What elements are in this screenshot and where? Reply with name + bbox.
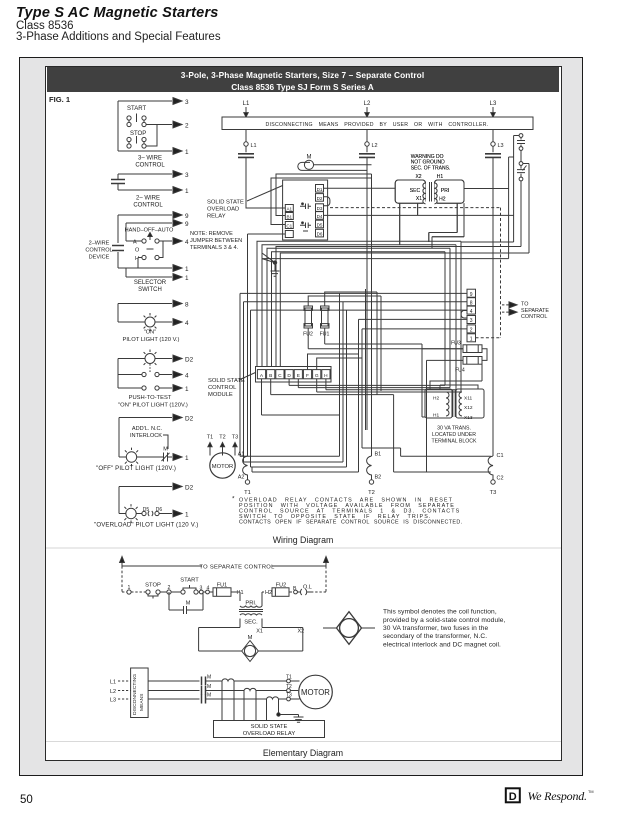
coil loop wires	[199, 628, 242, 652]
svg-text:HAND–OFF–AUTO: HAND–OFF–AUTO	[125, 228, 174, 234]
svg-text:provided by a solid-state cont: provided by a solid-state control module…	[383, 617, 506, 624]
motor M2	[299, 675, 333, 709]
30VA transformer core	[453, 390, 455, 417]
control terminal strip box 2	[467, 325, 476, 333]
fuse FU3	[463, 345, 482, 353]
svg-text:X11: X11	[464, 396, 473, 402]
wires fuses FU3 FU4	[422, 349, 487, 361]
svg-text:B1: B1	[286, 215, 292, 220]
svg-text:"ON" PILOT LIGHT (120V.): "ON" PILOT LIGHT (120V.)	[118, 403, 188, 409]
control terminal strip box 4	[467, 306, 476, 314]
wire pair branch to relay C1	[271, 178, 372, 225]
wires module F G up	[308, 354, 363, 370]
dark header bar	[47, 67, 559, 93]
svg-text:H2: H2	[439, 197, 446, 203]
svg-text:INTERLOCK: INTERLOCK	[130, 433, 162, 439]
wire relay bottom left	[248, 234, 286, 456]
coil connection wires	[240, 456, 359, 472]
wire A-H right link	[159, 241, 163, 258]
module cell F	[303, 370, 311, 379]
svg-text:PRI: PRI	[441, 188, 449, 194]
svg-text:STOP: STOP	[130, 131, 146, 137]
svg-text:TO: TO	[521, 302, 528, 308]
wire L2 aux pair	[367, 174, 372, 456]
svg-text:D2: D2	[185, 357, 194, 364]
arrow terminal 1	[173, 187, 182, 194]
phase wires	[148, 681, 199, 699]
svg-text:DEVICE: DEVICE	[89, 255, 110, 261]
svg-text:O: O	[135, 248, 140, 254]
svg-text:T3: T3	[490, 490, 497, 496]
to separate control arrows	[502, 304, 509, 306]
svg-text:4: 4	[185, 373, 189, 380]
overload sensor L3	[267, 697, 287, 699]
svg-text:OVERLOAD RELAY: OVERLOAD RELAY	[243, 731, 296, 737]
module cell B	[267, 370, 275, 379]
svg-text:1: 1	[185, 149, 189, 156]
svg-text:C: C	[278, 373, 282, 379]
wire to terminal 9 lower	[126, 223, 172, 241]
wires module cells down	[262, 379, 340, 415]
wire L2 drop	[366, 157, 368, 430]
svg-text:This symbol denotes the coil f: This symbol denotes the coil function,	[383, 608, 497, 615]
svg-text:D2: D2	[185, 416, 194, 423]
svg-text:D6: D6	[317, 232, 323, 237]
wire stair 4	[272, 252, 446, 367]
wires to control terminal strip	[240, 293, 467, 467]
pushbutton STOP contacts	[127, 137, 131, 141]
junction dot and ground tap	[279, 699, 299, 717]
svg-text:CONTROL: CONTROL	[135, 163, 165, 169]
wires fuse bottoms	[308, 328, 325, 349]
svg-text:FU3: FU3	[451, 341, 461, 347]
svg-text:E: E	[297, 373, 300, 379]
svg-text:T1: T1	[207, 435, 213, 441]
svg-text:SELECTOR: SELECTOR	[134, 280, 167, 286]
svg-text:SEC.: SEC.	[244, 620, 258, 626]
separator rule	[46, 547, 561, 549]
svg-text:"OVERLOAD" PILOT LIGHT (120 V.: "OVERLOAD" PILOT LIGHT (120 V.)	[94, 522, 198, 529]
relay terminal D3	[316, 204, 324, 212]
svg-text:8: 8	[185, 302, 189, 309]
wire PRI out	[464, 188, 509, 190]
wire fu loop down	[422, 344, 425, 417]
svg-text:OVERLOAD: OVERLOAD	[207, 207, 239, 213]
svg-text:PUSH-TO-TEST: PUSH-TO-TEST	[129, 395, 172, 401]
wire to terminal D2	[119, 417, 172, 419]
svg-text:FU4: FU4	[455, 368, 465, 374]
contact device symbol	[117, 174, 119, 190]
pilot light overload	[126, 508, 136, 518]
svg-text:RELAY: RELAY	[207, 214, 226, 220]
svg-text:2: 2	[470, 328, 473, 334]
svg-text:D: D	[509, 791, 517, 803]
svg-text:SOLID STATE: SOLID STATE	[207, 200, 244, 206]
svg-text:*: *	[232, 496, 235, 503]
wire risers right	[445, 241, 461, 392]
wire L3 drop	[492, 157, 494, 456]
wires fuse tops	[308, 292, 381, 306]
svg-text:C2: C2	[497, 476, 504, 482]
svg-text:2–WIRE: 2–WIRE	[89, 241, 110, 247]
control terminal strip box 8	[467, 298, 476, 306]
NC interlock lower	[519, 162, 523, 166]
ground	[271, 271, 280, 276]
svg-text:M: M	[207, 684, 211, 690]
svg-text:DISCONNECTING: DISCONNECTING	[132, 674, 138, 715]
svg-text:SOLID STATE: SOLID STATE	[208, 378, 245, 384]
svg-text:F: F	[306, 373, 309, 379]
outer gray frame	[19, 57, 583, 776]
wire to terminal 3	[118, 173, 172, 175]
overload contact	[136, 513, 142, 515]
svg-text:MOTOR: MOTOR	[301, 688, 330, 697]
wire stair 5	[276, 247, 521, 367]
primary right lead	[262, 592, 264, 606]
svg-text:B: B	[269, 373, 272, 379]
wire to terminal 2	[146, 124, 172, 126]
arrow terminal 3	[173, 171, 182, 178]
left rail	[119, 487, 126, 514]
svg-text:1: 1	[470, 337, 473, 343]
arrow terminal 1	[173, 148, 182, 155]
dashed wire from terminal 1	[476, 337, 501, 339]
wire H row to bottom	[138, 258, 142, 269]
wire D3 dashed out	[330, 207, 501, 209]
svg-text:CONTROL: CONTROL	[133, 203, 163, 209]
square d logo	[506, 788, 520, 802]
relay internal contact upper	[300, 204, 311, 210]
svg-text:LOCATED UNDER: LOCATED UNDER	[432, 432, 476, 438]
secondary leads	[240, 619, 262, 628]
svg-text:electrical interlock and DC ma: electrical interlock and DC magnet coil.	[383, 641, 501, 648]
pushbutton START contacts	[127, 116, 131, 120]
svg-text:B1: B1	[375, 452, 382, 458]
svg-text:4: 4	[185, 320, 189, 327]
svg-text:G: G	[315, 373, 319, 379]
lower contact row	[118, 387, 142, 389]
module cell H	[322, 370, 330, 379]
fuse FU1	[322, 308, 329, 326]
interlock riser right	[528, 164, 530, 254]
svg-text:MODULE: MODULE	[208, 392, 233, 398]
module cell D	[285, 370, 293, 379]
relay internal contact lower	[300, 223, 311, 232]
L2 fuse terminal	[366, 130, 368, 142]
svg-text:JUMPER BETWEEN: JUMPER BETWEEN	[190, 238, 242, 244]
arrow terminal 2	[173, 121, 182, 128]
svg-text:H1: H1	[437, 174, 444, 180]
svg-text:2: 2	[185, 123, 189, 130]
legend diamond symbol	[337, 612, 362, 645]
left rail	[117, 215, 119, 268]
svg-text:30 VA transformer, two fuses i: 30 VA transformer, two fuses in the	[383, 625, 488, 632]
svg-text:A: A	[133, 240, 137, 246]
wire to terminal 9 upper	[118, 214, 172, 216]
svg-text:START: START	[127, 106, 146, 112]
svg-text:M: M	[207, 693, 211, 699]
wire to terminal 3	[118, 100, 172, 102]
relay terminal D6	[316, 229, 324, 237]
dashed rail down	[500, 208, 502, 338]
wire jog start-to-stop	[146, 125, 157, 147]
relay terminal C1	[285, 222, 293, 229]
svg-text:TO SEPARATE CONTROL: TO SEPARATE CONTROL	[199, 564, 275, 570]
svg-text:We Respond.: We Respond.	[528, 789, 587, 803]
page title	[16, 5, 219, 21]
wire stair 7	[262, 258, 509, 260]
svg-text:SEC: SEC	[410, 188, 421, 194]
wire stair 3	[267, 248, 450, 366]
svg-text:3: 3	[470, 318, 473, 324]
svg-text:MEANS: MEANS	[139, 693, 145, 711]
wire light to contact to terminal 1	[137, 456, 172, 458]
sensor drops to relay box	[222, 681, 267, 721]
svg-text:1: 1	[185, 188, 189, 195]
svg-text:M: M	[186, 601, 191, 607]
bundle horizontals	[271, 385, 461, 394]
svg-text:9: 9	[185, 221, 189, 228]
pilot light	[145, 354, 155, 364]
svg-text:L2: L2	[364, 101, 371, 107]
svg-text:L1: L1	[243, 101, 250, 107]
svg-text:3: 3	[185, 99, 189, 106]
transformer loop wires	[400, 203, 418, 245]
svg-text:D: D	[287, 373, 291, 379]
svg-text:SEPARATE: SEPARATE	[521, 308, 549, 314]
svg-text:START: START	[180, 578, 199, 584]
svg-text:NOTE: REMOVE: NOTE: REMOVE	[190, 231, 233, 237]
30VA transformer left winding	[425, 389, 452, 418]
module cell C	[276, 370, 284, 379]
svg-text:CONTROL: CONTROL	[208, 385, 237, 391]
svg-text:T2: T2	[368, 490, 375, 496]
test contact row	[118, 374, 142, 376]
L3 fuse terminal	[492, 130, 494, 142]
fuse FU4	[463, 357, 482, 365]
dashed link light to contact	[149, 364, 151, 372]
disconnecting means box	[131, 668, 149, 718]
svg-text:3– WIRE: 3– WIRE	[138, 156, 162, 162]
svg-text:PILOT LIGHT (120 V.): PILOT LIGHT (120 V.)	[123, 337, 180, 343]
wire stair 1	[257, 241, 461, 366]
arrow terminal 3	[173, 98, 182, 105]
svg-text:L2: L2	[372, 143, 378, 149]
svg-text:L3: L3	[490, 101, 497, 107]
svg-text:SOLID STATE: SOLID STATE	[251, 724, 288, 730]
svg-text:MOTOR: MOTOR	[212, 464, 233, 470]
svg-text:9: 9	[185, 213, 189, 220]
svg-text:DISCONNECTING MEANS PROVIDED: DISCONNECTING MEANS PROVIDED BY USER OR …	[265, 122, 488, 128]
wire D1 out	[324, 187, 396, 189]
pilot light ON	[145, 317, 155, 327]
relay terminal D0	[285, 231, 293, 238]
relay terminal A1	[285, 205, 293, 212]
wire M top to interlock	[314, 164, 372, 166]
wire to terminal 1	[118, 189, 172, 191]
battery bars 2-wire device	[112, 246, 124, 251]
wire L1 drop to relay	[246, 157, 285, 208]
svg-text:M: M	[163, 447, 168, 453]
wire left rail	[117, 101, 119, 151]
white drawing panel	[45, 66, 562, 761]
wires into motor	[290, 681, 299, 699]
motor M1	[210, 453, 235, 478]
NC interlock upper	[519, 134, 523, 138]
relay terminal D1	[316, 185, 324, 193]
svg-text:SWITCH: SWITCH	[138, 287, 162, 293]
wire stair 2	[262, 245, 456, 367]
wire riser pair	[377, 292, 381, 395]
ground junction	[273, 261, 276, 264]
svg-text:ADD'L. N.C.: ADD'L. N.C.	[132, 426, 163, 432]
svg-text:T1: T1	[244, 490, 251, 496]
svg-text:X13: X13	[464, 415, 473, 421]
wire primary top	[239, 592, 241, 601]
module cell E	[294, 370, 302, 379]
overload sensor L1	[222, 679, 287, 681]
transformer connection wires	[430, 364, 482, 389]
jumper tab 4-3	[461, 311, 467, 319]
left rail	[118, 304, 145, 323]
left rail	[117, 359, 119, 389]
relay terminal D5	[316, 220, 324, 228]
svg-text:D1: D1	[317, 187, 323, 192]
wire stair 6	[280, 253, 529, 367]
svg-text:1: 1	[185, 512, 189, 519]
svg-text:A2: A2	[238, 475, 245, 481]
svg-text:L3: L3	[498, 143, 504, 149]
svg-text:"OFF" PILOT LIGHT (120V.): "OFF" PILOT LIGHT (120V.)	[96, 465, 176, 472]
svg-text:D2: D2	[185, 485, 194, 492]
svg-text:X1: X1	[256, 629, 263, 635]
svg-text:3: 3	[185, 172, 189, 179]
relay terminal D4	[316, 212, 324, 220]
wire to terminal 4	[155, 321, 172, 323]
svg-text:T3: T3	[232, 435, 238, 441]
svg-text:C1: C1	[286, 224, 292, 229]
wire to terminal 1	[118, 267, 172, 269]
svg-text:H1: H1	[433, 413, 439, 419]
svg-text:L1: L1	[251, 143, 257, 149]
control terminal strip box 1	[467, 334, 476, 342]
fuse FU2	[305, 308, 312, 326]
wire to terminal 1	[118, 150, 172, 152]
svg-text:X12: X12	[464, 405, 473, 411]
svg-text:"ON": "ON"	[144, 330, 156, 336]
wire M bottom	[310, 169, 367, 171]
svg-text:H2: H2	[433, 396, 439, 402]
svg-text:4: 4	[470, 309, 473, 315]
svg-text:8: 8	[470, 300, 473, 306]
selector actuator arrow	[149, 235, 151, 240]
svg-text:D2: D2	[317, 196, 323, 201]
svg-text:H2: H2	[265, 590, 272, 596]
separator rule	[46, 741, 561, 743]
svg-text:STOP: STOP	[145, 583, 161, 589]
svg-text:D4: D4	[317, 214, 323, 219]
L1 fuse terminal	[245, 130, 247, 142]
wire L2 branch to relay B1	[276, 174, 367, 216]
wire fu1 bottom across	[325, 344, 422, 349]
svg-text:L1: L1	[110, 680, 116, 686]
module cell G	[313, 370, 321, 379]
svg-text:1: 1	[185, 386, 189, 393]
jumper tab D2-D3	[324, 197, 330, 206]
svg-text:CONTACTS OPEN IF SEPARATE CONT: CONTACTS OPEN IF SEPARATE CONTROL SOURCE…	[239, 520, 462, 526]
dashed rails down	[121, 566, 123, 592]
pilot light OFF	[126, 452, 136, 462]
svg-text:X1: X1	[416, 196, 422, 202]
svg-text:X2: X2	[415, 174, 421, 180]
svg-text:L2: L2	[110, 689, 116, 695]
svg-text:D3: D3	[317, 206, 323, 211]
arrow terminal 4	[173, 238, 182, 245]
svg-text:M: M	[207, 675, 211, 681]
riser right outer	[509, 157, 514, 259]
wire fu2 bottom across	[308, 348, 463, 350]
svg-text:C1: C1	[497, 453, 504, 459]
relay terminal B1	[285, 213, 293, 220]
solid state overload relay box	[283, 180, 328, 240]
control terminal strip box 3	[467, 316, 476, 324]
svg-text:1: 1	[185, 275, 189, 282]
svg-text:D5: D5	[317, 223, 323, 228]
svg-text:B2: B2	[375, 475, 382, 481]
svg-text:9: 9	[470, 292, 473, 298]
svg-text:30 VA TRANS.: 30 VA TRANS.	[437, 426, 471, 432]
ground	[294, 717, 304, 722]
svg-text:4: 4	[185, 239, 189, 246]
solid state overload relay box	[214, 721, 325, 738]
svg-text:secondary of the transformer,: secondary of the transformer, N.C.	[383, 633, 487, 640]
wire to terminal 1 lower	[126, 268, 172, 277]
control terminal strip box 9	[467, 289, 476, 297]
svg-text:CONTROL: CONTROL	[85, 248, 112, 254]
svg-text:L3: L3	[110, 698, 116, 704]
svg-text:A1: A1	[286, 207, 292, 212]
svg-text:SEC. OF TRANS.: SEC. OF TRANS.	[411, 165, 451, 171]
svg-text:T2: T2	[219, 435, 225, 441]
svg-text:1: 1	[185, 455, 189, 462]
solid state control module strip	[256, 367, 332, 383]
svg-text:2– WIRE: 2– WIRE	[136, 196, 160, 202]
disconnecting means box	[222, 117, 533, 130]
svg-text:TERMINAL BLOCK: TERMINAL BLOCK	[431, 439, 477, 445]
svg-text:1: 1	[185, 266, 189, 273]
svg-text:TM: TM	[588, 790, 593, 794]
wire D4 out	[324, 214, 514, 216]
svg-text:H: H	[324, 373, 328, 379]
interlock riser left	[461, 136, 514, 243]
wire to terminal D2	[118, 358, 172, 360]
transformer loop wires	[400, 203, 418, 245]
wire to terminal 8	[118, 303, 172, 305]
to separate control line	[122, 565, 326, 567]
overload sensor L2	[244, 688, 287, 690]
transformer secondary	[240, 614, 262, 615]
relay terminal D2	[316, 194, 324, 202]
wire to terminal D2	[119, 486, 172, 488]
module cell A	[257, 370, 265, 379]
svg-text:M: M	[307, 155, 312, 161]
left rail	[119, 418, 126, 458]
30VA transformer right winding	[456, 389, 484, 418]
svg-text:CONTROL: CONTROL	[521, 314, 547, 320]
svg-text:TERMINALS 3 & 4.: TERMINALS 3 & 4.	[190, 245, 239, 251]
wire riser transformer	[426, 360, 428, 472]
svg-text:O.L: O.L	[303, 585, 312, 591]
